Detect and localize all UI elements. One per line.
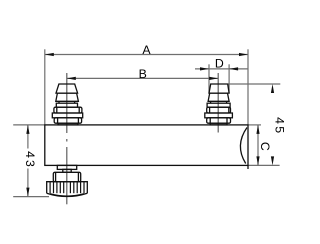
svg-text:45: 45 — [273, 117, 287, 135]
svg-text:43: 43 — [23, 151, 37, 169]
svg-text:B: B — [139, 67, 147, 81]
svg-text:A: A — [142, 43, 151, 57]
svg-text:D: D — [215, 57, 224, 71]
svg-text:C: C — [258, 142, 272, 151]
